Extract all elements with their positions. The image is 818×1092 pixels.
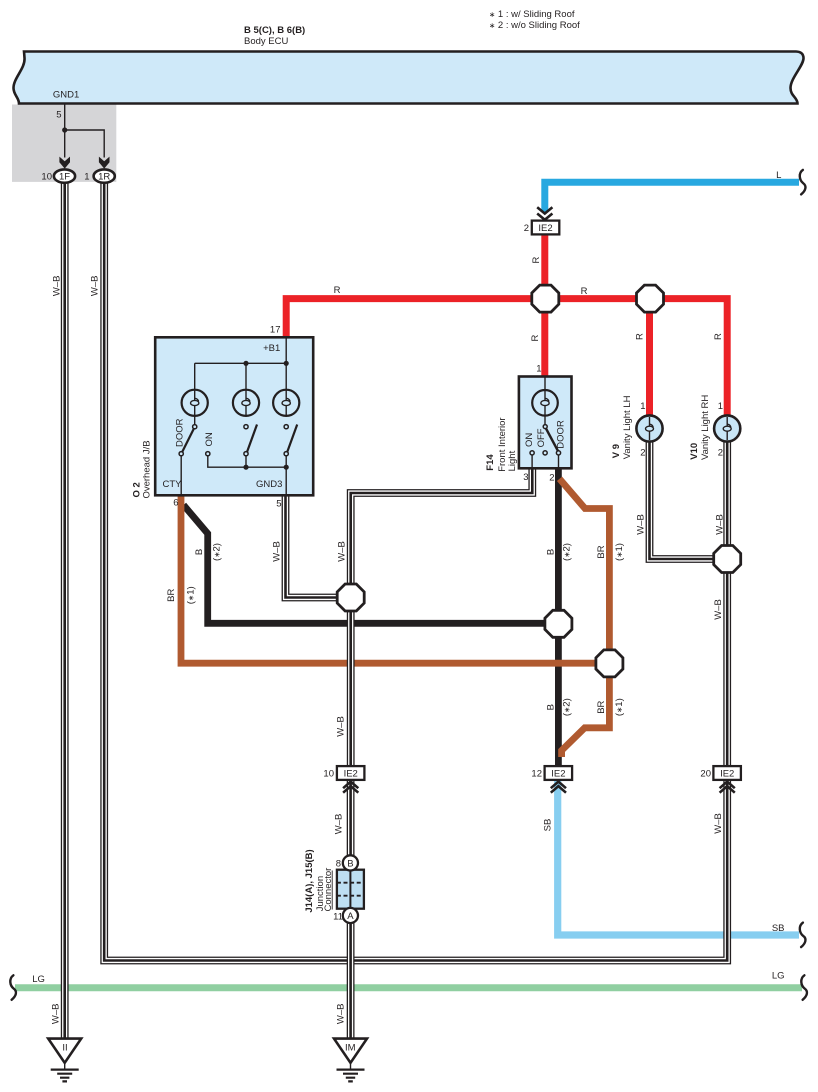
svg-text:ON: ON <box>204 432 215 446</box>
node octagon W-B junction <box>337 584 364 611</box>
svg-text:1R: 1R <box>98 172 110 183</box>
svg-text:B: B <box>347 858 353 869</box>
svg-text:DOOR: DOOR <box>175 418 186 447</box>
svg-text:IE2: IE2 <box>538 223 552 234</box>
svg-text:W–B: W–B <box>335 1004 346 1025</box>
svg-text:12: 12 <box>531 769 542 780</box>
svg-text:B 5(C), B 6(B): B 5(C), B 6(B) <box>244 25 305 36</box>
svg-text:2: 2 <box>640 448 645 459</box>
node octagon BR junction <box>596 650 623 677</box>
svg-text:1: 1 <box>536 364 541 375</box>
ground II <box>48 1039 81 1063</box>
svg-text:Vanity Light RH: Vanity Light RH <box>700 395 711 460</box>
svg-text:OFF: OFF <box>536 428 547 447</box>
svg-text:IM: IM <box>345 1043 356 1054</box>
svg-text:BR: BR <box>166 589 177 602</box>
wire W-B from 10 IE2 through junction connector to ground IM <box>347 780 355 1039</box>
svg-text:10: 10 <box>41 172 52 183</box>
junction box O2 Overhead J/B <box>155 337 313 495</box>
svg-text:F14: F14 <box>485 454 496 471</box>
lamp O2 middle <box>233 390 259 416</box>
svg-text:W–B: W–B <box>713 599 724 620</box>
gray ground-distribution block <box>12 105 116 182</box>
wire W-B from O2 GND3 to junction node <box>286 495 351 597</box>
svg-text:DOOR: DOOR <box>555 420 566 449</box>
lamp V10 Vanity Light RH <box>714 415 740 441</box>
squiggle LG left end <box>10 975 16 1000</box>
svg-text:W–B: W–B <box>337 541 348 562</box>
svg-text:W–B: W–B <box>713 813 724 834</box>
connector 10 IE2 <box>337 766 365 780</box>
svg-text:(∗1): (∗1) <box>186 586 197 604</box>
pin B junction connector <box>343 855 358 870</box>
svg-text:W–B: W–B <box>90 276 101 297</box>
wire W-B from V10 pin2 to 20 IE2 <box>723 442 731 766</box>
svg-text:LG: LG <box>772 971 785 982</box>
svg-text:R: R <box>334 285 341 296</box>
wire R red main <box>286 299 727 417</box>
svg-text:R: R <box>713 333 724 340</box>
connector 1R <box>94 169 115 182</box>
connector 20 IE2 <box>713 766 741 780</box>
svg-text:BR: BR <box>596 545 607 558</box>
svg-text:3: 3 <box>523 472 528 483</box>
svg-text:10: 10 <box>323 769 334 780</box>
svg-text:IE2: IE2 <box>551 769 565 780</box>
svg-text:L: L <box>776 170 781 181</box>
lamp O2 CTY <box>182 390 208 416</box>
svg-text:17: 17 <box>270 325 281 336</box>
svg-text:GND3: GND3 <box>256 479 282 490</box>
lamp O2 right <box>273 390 299 416</box>
svg-text:Vanity Light LH: Vanity Light LH <box>622 395 633 459</box>
svg-text:11: 11 <box>333 912 343 923</box>
svg-text:B: B <box>545 704 556 710</box>
svg-text:GND1: GND1 <box>53 90 79 101</box>
svg-text:(∗2): (∗2) <box>561 543 572 561</box>
arrow into 1R <box>99 157 110 169</box>
wire SB light blue from 12 IE2 <box>558 781 799 936</box>
svg-text:IE2: IE2 <box>344 769 358 780</box>
wire BR brown from O2 CTY <box>181 495 609 663</box>
squiggle SB wire end <box>800 923 806 948</box>
node octagon B junction <box>545 610 572 637</box>
svg-text:5: 5 <box>276 499 281 510</box>
wire L blue top right <box>545 182 799 212</box>
svg-text:(∗2): (∗2) <box>212 543 223 561</box>
svg-text:J14(A), J15(B): J14(A), J15(B) <box>304 849 315 912</box>
svg-text:Overhead J/B: Overhead J/B <box>142 440 153 498</box>
svg-text:CTY: CTY <box>163 479 183 490</box>
squiggle L wire end <box>800 170 806 195</box>
svg-text:LG: LG <box>32 974 45 985</box>
wire B black branch from O2 CTY <box>184 505 559 623</box>
lamp V9 Vanity Light LH <box>636 415 662 441</box>
svg-text:Front Interior: Front Interior <box>497 417 508 471</box>
svg-text:1F: 1F <box>59 172 70 183</box>
svg-text:+B1: +B1 <box>263 343 280 354</box>
arrow into 1F <box>59 157 70 169</box>
svg-text:ON: ON <box>524 433 535 447</box>
switch F14 <box>543 425 547 429</box>
svg-text:R: R <box>634 333 645 340</box>
wire LG green bottom <box>15 984 802 991</box>
wire W-B from V9 pin2 to node <box>650 442 728 559</box>
svg-text:(∗1): (∗1) <box>614 698 625 716</box>
svg-text:1: 1 <box>718 401 723 412</box>
node octagon red junction right <box>637 285 664 312</box>
connector 1F <box>54 169 75 182</box>
svg-text:II: II <box>62 1043 67 1054</box>
svg-text:5: 5 <box>56 109 61 120</box>
contact ON O2 <box>206 452 210 456</box>
svg-text:R: R <box>581 286 588 297</box>
connector 2 IE2 top <box>537 207 552 220</box>
svg-text:W–B: W–B <box>334 814 345 835</box>
box F14 Front Interior Light <box>519 377 572 469</box>
squiggle LG right end <box>801 975 807 1000</box>
connector 12 IE2 <box>545 766 573 780</box>
svg-text:20: 20 <box>700 769 711 780</box>
svg-text:R: R <box>531 256 542 263</box>
svg-text:2: 2 <box>718 448 723 459</box>
wire R red IE2 to F14 <box>541 234 548 377</box>
junction dots bus top <box>243 361 248 366</box>
wire BR brown F14 pin2 branch <box>560 479 610 757</box>
wire GND1 pin5 to 1F/1R <box>64 104 66 158</box>
svg-text:6: 6 <box>173 498 178 509</box>
svg-text:(∗1): (∗1) <box>614 543 625 561</box>
wire R red to V9 <box>646 299 653 417</box>
node octagon red junction left <box>532 285 559 312</box>
svg-text:BR: BR <box>596 700 607 713</box>
svg-text:2: 2 <box>524 223 529 234</box>
svg-text:B: B <box>545 549 556 555</box>
svg-text:2: 2 <box>549 473 554 484</box>
svg-text:1: 1 <box>640 401 645 412</box>
svg-text:V 9: V 9 <box>611 444 622 458</box>
svg-text:SB: SB <box>772 923 785 934</box>
svg-text:Body ECU: Body ECU <box>244 36 288 47</box>
svg-text:SB: SB <box>543 819 554 832</box>
svg-text:Light: Light <box>507 450 518 471</box>
node octagon W-B vanity junction <box>714 546 741 573</box>
switch O2 right <box>284 425 288 429</box>
svg-text:IE2: IE2 <box>720 769 734 780</box>
wire W-B from 1F to ground II <box>61 180 69 1039</box>
svg-text:∗ 2 : w/o Sliding Roof: ∗ 2 : w/o Sliding Roof <box>489 20 580 31</box>
svg-text:W–B: W–B <box>336 716 347 737</box>
svg-text:W–B: W–B <box>714 514 725 535</box>
Body ECU band B5(C)/B6(B) <box>14 52 804 104</box>
svg-text:1: 1 <box>84 172 89 183</box>
svg-text:∗ 1 : w/ Sliding Roof: ∗ 1 : w/ Sliding Roof <box>489 9 575 20</box>
wire B black from F14 pin2 to 12 IE2 <box>555 467 562 766</box>
svg-text:R: R <box>530 334 541 341</box>
lamp F14 <box>532 390 558 416</box>
svg-text:W–B: W–B <box>271 541 282 562</box>
switch O2 middle <box>244 425 248 429</box>
svg-text:W–B: W–B <box>51 276 62 297</box>
ground IM <box>334 1039 367 1063</box>
junction connector J14(A), J15(B) <box>337 870 364 909</box>
svg-text:A: A <box>347 911 354 922</box>
wire W-B from F14 pin3 to 10 IE2 <box>351 469 533 766</box>
svg-text:W–B: W–B <box>636 514 647 535</box>
junction dot <box>62 127 67 132</box>
svg-text:8: 8 <box>336 858 341 869</box>
svg-text:V10: V10 <box>689 443 700 460</box>
wire W-B from 1R to 20 IE2 <box>104 180 727 961</box>
svg-text:W–B: W–B <box>50 1004 61 1025</box>
wire +B1 internal bus <box>195 337 287 390</box>
pin A junction connector <box>343 908 358 923</box>
switch DOOR O2 <box>194 416 196 425</box>
svg-text:(∗2): (∗2) <box>561 698 572 716</box>
svg-text:B: B <box>194 549 205 555</box>
